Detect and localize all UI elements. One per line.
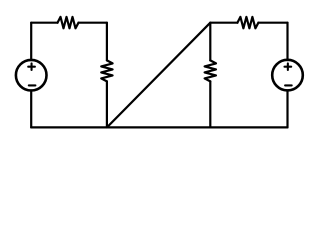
resistor R2: [101, 60, 112, 81]
resistor R1: [58, 17, 79, 28]
wire diagonal node B to node C: [107, 23, 210, 128]
wire left inner vertical upper: [106, 23, 108, 61]
wire right inner vertical upper: [209, 23, 211, 61]
resistor R3: [205, 60, 216, 81]
wire top rail right, right of R4: [258, 22, 287, 24]
wire left inner vertical lower: [106, 81, 108, 127]
V2 minus label: [285, 84, 292, 86]
wire top rail right segment: [210, 22, 237, 24]
wire top rail left segment: [31, 22, 57, 24]
wire right outer vertical upper: [286, 23, 288, 60]
voltage source V2: [272, 60, 303, 91]
V1 minus label: [29, 84, 36, 86]
V2 plus label: [285, 63, 292, 70]
wire left outer vertical lower: [30, 90, 32, 127]
wire left outer vertical upper: [30, 23, 32, 60]
V1 plus label: [28, 63, 35, 70]
voltage source V1: [16, 60, 47, 91]
resistor R4: [237, 17, 258, 28]
wire bottom rail: [31, 126, 287, 128]
wire top rail left, right of R1: [79, 22, 107, 24]
wire right inner vertical lower: [209, 81, 211, 127]
wire right outer vertical lower: [286, 90, 288, 127]
